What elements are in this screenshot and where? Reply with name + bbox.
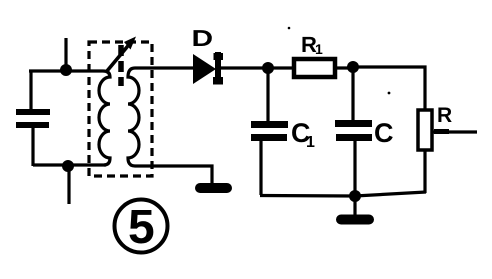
svg-text:R: R <box>437 104 452 127</box>
wire capacitor to bottom rail <box>31 128 34 166</box>
capacitor C1 <box>251 121 288 141</box>
figure number 5 circle <box>115 200 168 253</box>
svg-text:D: D <box>192 25 214 51</box>
terminal stub top <box>64 38 67 71</box>
wire node C to R1 <box>268 66 293 69</box>
ground (center) stem <box>353 196 356 216</box>
scan speck <box>388 92 391 95</box>
wire R1 to node D <box>335 66 353 69</box>
transformer T1 shield (dashed box) <box>89 42 152 176</box>
svg-text:5: 5 <box>128 201 155 254</box>
svg-text:C: C <box>374 118 394 148</box>
output terminal wire <box>432 130 477 133</box>
transformer secondary winding <box>128 68 139 166</box>
wire diode to node C <box>221 66 268 69</box>
wire node D down to C <box>351 67 354 121</box>
junction node D <box>347 61 359 73</box>
wire secondary top to diode <box>135 66 193 69</box>
resistor R <box>418 110 432 150</box>
ground (center) bar <box>341 215 369 225</box>
junction node B <box>62 160 74 172</box>
transformer adjustable core <box>118 45 124 86</box>
junction node C <box>262 62 274 74</box>
resistor R1 <box>294 59 335 77</box>
ground (right of transformer) bar <box>200 183 227 193</box>
wire node D to resistor R <box>353 67 425 111</box>
wire bottom-left horizontal <box>33 163 106 166</box>
junction node A <box>60 64 72 76</box>
wire C to bottom rail junction <box>353 140 356 196</box>
transformer primary winding <box>99 71 110 165</box>
wire bottom rail <box>260 192 426 196</box>
capacitor C <box>335 120 372 141</box>
terminal stub bottom <box>67 166 70 204</box>
svg-text:1: 1 <box>315 41 323 57</box>
wire R bottom to rail <box>423 150 426 193</box>
capacitor (antenna tuning, unlabeled) <box>16 109 50 128</box>
wire node C down to C1 <box>266 68 269 122</box>
wire top-left horizontal <box>29 69 103 72</box>
wire left vertical <box>29 71 32 110</box>
wire C1 to bottom rail <box>259 140 262 195</box>
tuning arrow <box>107 41 132 71</box>
junction node E <box>349 190 361 202</box>
scan speck <box>288 27 291 30</box>
diode D <box>193 54 216 84</box>
wire secondary bottom to ground <box>135 166 212 184</box>
svg-text:1: 1 <box>306 134 315 151</box>
